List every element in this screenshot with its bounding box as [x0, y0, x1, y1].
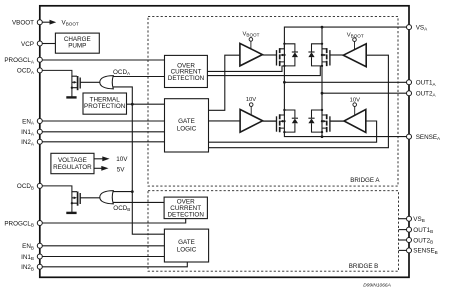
- svg-text:VOLTAGE: VOLTAGE: [58, 157, 87, 164]
- svg-text:LOGIC: LOGIC: [177, 126, 197, 133]
- svg-text:BRIDGE B: BRIDGE B: [349, 263, 379, 270]
- svg-text:DETECTION: DETECTION: [168, 75, 205, 82]
- svg-text:10V: 10V: [246, 97, 256, 103]
- svg-text:BRIDGE A: BRIDGE A: [350, 177, 380, 184]
- svg-text:PROGCLA: PROGCLA: [4, 57, 35, 64]
- svg-text:GATE: GATE: [178, 118, 195, 125]
- svg-text:PUMP: PUMP: [68, 42, 86, 49]
- svg-text:VBOOT: VBOOT: [347, 32, 364, 38]
- svg-text:D99IN1066A: D99IN1066A: [363, 283, 390, 289]
- svg-text:VCP: VCP: [21, 41, 34, 48]
- svg-text:SENSEB: SENSEB: [413, 248, 437, 255]
- svg-text:VBOOT: VBOOT: [12, 20, 34, 27]
- svg-text:10V: 10V: [350, 98, 360, 104]
- svg-text:5V: 5V: [117, 166, 126, 173]
- svg-text:PROGCLB: PROGCLB: [4, 220, 34, 227]
- svg-text:10V: 10V: [116, 156, 128, 163]
- svg-text:LOGIC: LOGIC: [177, 247, 197, 254]
- svg-text:VBOOT: VBOOT: [243, 31, 260, 37]
- svg-text:REGULATOR: REGULATOR: [53, 164, 92, 171]
- svg-text:DETECTION: DETECTION: [168, 212, 205, 219]
- svg-text:GATE: GATE: [178, 239, 195, 246]
- svg-text:PROTECTION: PROTECTION: [84, 103, 126, 110]
